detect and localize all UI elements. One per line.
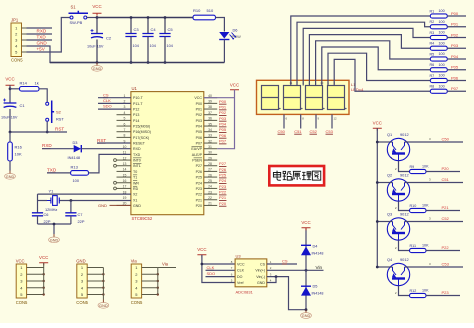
- wire RST to MCU pin9: [97, 142, 131, 144]
- svg-text:R7: R7: [430, 74, 435, 78]
- wire Q4 collector to C53: [405, 266, 464, 268]
- junction C5 bottom: [164, 61, 167, 64]
- wire TXD pin3: [27, 39, 53, 41]
- svg-text:D5: D5: [313, 284, 318, 289]
- svg-text:VCC: VCC: [230, 82, 239, 87]
- svg-text:100: 100: [439, 20, 445, 24]
- svg-text:WR: WR: [133, 181, 139, 185]
- wire Q3 collector to C52: [405, 221, 464, 223]
- wires Via connector: [142, 268, 176, 296]
- svg-text:6: 6: [124, 122, 126, 126]
- svg-text:R5: R5: [430, 52, 435, 56]
- wire R11 to net P22: [426, 250, 460, 252]
- wire ground rail: [50, 62, 224, 64]
- svg-text:P22: P22: [442, 245, 450, 250]
- svg-text:C50: C50: [278, 129, 286, 134]
- net labels P27-P20 on MCU: [219, 161, 227, 206]
- wire R6 to net: [447, 69, 466, 71]
- display digit 4: [328, 86, 347, 110]
- wire Q1 emitter: [377, 141, 392, 143]
- transistor Q2 9012: [387, 173, 410, 202]
- svg-text:Q1: Q1: [387, 132, 392, 137]
- IC U1 left pins 1-20: [114, 94, 151, 208]
- wire display segment 5 to R6: [322, 47, 431, 86]
- svg-text:+5V: +5V: [37, 47, 46, 52]
- svg-text:P22: P22: [196, 193, 202, 197]
- svg-text:9012: 9012: [400, 212, 409, 217]
- svg-text:CLK: CLK: [103, 98, 111, 103]
- svg-text:SW-PB: SW-PB: [70, 20, 83, 25]
- svg-text:12: 12: [123, 156, 127, 160]
- wire JP1 pin1: [27, 27, 53, 29]
- svg-text:TXD: TXD: [47, 167, 57, 172]
- svg-text:P17(SCK): P17(SCK): [133, 136, 149, 140]
- svg-text:C52: C52: [442, 216, 450, 221]
- svg-text:12: 12: [334, 117, 338, 121]
- svg-text:25: 25: [208, 179, 212, 183]
- svg-text:R6: R6: [430, 63, 435, 67]
- svg-text:P13: P13: [133, 113, 139, 117]
- svg-text:P21: P21: [196, 198, 202, 202]
- wire display segment 4 to R5: [316, 41, 431, 86]
- svg-text:INT1: INT1: [133, 164, 141, 168]
- wire GND pin4 to ground rail: [27, 46, 98, 63]
- connector JP1 (CON5 serial header): [11, 17, 27, 62]
- svg-text:X1: X1: [133, 198, 137, 202]
- capacitor C4 104: [142, 18, 156, 63]
- wire display common cathode 1: [283, 114, 285, 128]
- svg-text:SDO: SDO: [207, 271, 216, 276]
- svg-text:P20: P20: [219, 201, 227, 206]
- svg-text:P05: P05: [451, 65, 459, 70]
- svg-text:IN4148: IN4148: [312, 292, 324, 296]
- diode D4 IN4148 clamp to VCC: [301, 244, 323, 256]
- junction Q1 emitter rail: [376, 141, 379, 144]
- svg-text:P02: P02: [451, 32, 459, 37]
- svg-text:CON5: CON5: [131, 300, 143, 305]
- junction Vin diode column: [305, 269, 308, 272]
- capacitor C7 22P: [65, 212, 85, 224]
- svg-text:C51: C51: [294, 129, 302, 134]
- svg-text:RST: RST: [56, 117, 64, 122]
- svg-text:VCC: VCC: [16, 259, 25, 264]
- svg-text:VCC: VCC: [197, 247, 206, 252]
- svg-text:Q2: Q2: [387, 173, 392, 178]
- wire CS adc right: [267, 263, 297, 265]
- svg-text:16: 16: [123, 179, 127, 183]
- wire Q4 base to R12: [399, 286, 410, 296]
- svg-text:R16: R16: [15, 145, 23, 150]
- transistor Q1 9012: [387, 132, 410, 161]
- wire R3 to net: [447, 37, 466, 39]
- junction ground rail at C2: [96, 61, 99, 64]
- junction C4 top: [147, 16, 150, 19]
- display top pin numbers: [289, 81, 335, 85]
- resistor R4 100: [430, 41, 448, 50]
- wire R10 to net P21: [426, 210, 460, 212]
- svg-text:22: 22: [208, 196, 212, 200]
- svg-text:24: 24: [208, 185, 212, 189]
- svg-text:P27: P27: [196, 164, 202, 168]
- resistor R11 10K: [410, 244, 430, 253]
- wire R4 to net: [447, 47, 466, 49]
- svg-text:P01: P01: [451, 22, 459, 27]
- svg-text:9012: 9012: [400, 173, 409, 178]
- svg-text:R4: R4: [430, 42, 435, 46]
- wire RXD to diode D3: [42, 148, 74, 150]
- svg-text:GND: GND: [37, 41, 48, 46]
- junction Vin- gnd branch: [275, 275, 278, 278]
- svg-text:P05: P05: [219, 127, 227, 132]
- svg-text:P11-T: P11-T: [133, 102, 143, 106]
- svg-text:11: 11: [123, 151, 127, 155]
- LED D6 POW: [219, 28, 241, 40]
- svg-text:P00: P00: [451, 11, 459, 16]
- wire VCC adc to pins: [202, 255, 235, 283]
- svg-text:P00: P00: [219, 99, 227, 104]
- svg-text:14: 14: [123, 168, 127, 172]
- svg-text:GND: GND: [93, 67, 102, 71]
- wire R5 to net: [447, 58, 466, 60]
- IC U1 right pins 21-40: [191, 94, 217, 208]
- svg-text:C1: C1: [20, 103, 26, 108]
- svg-text:RST: RST: [97, 138, 106, 143]
- resistor R3 100: [430, 31, 448, 40]
- ground symbol reset: [9, 171, 11, 174]
- svg-text:10: 10: [123, 145, 127, 149]
- svg-text:34: 34: [208, 128, 212, 132]
- svg-text:R14: R14: [20, 80, 28, 85]
- svg-text:JP1: JP1: [11, 17, 19, 22]
- svg-text:RD: RD: [133, 187, 139, 191]
- wire RST row: [10, 131, 67, 133]
- svg-text:T0: T0: [133, 170, 137, 174]
- svg-text:VCC: VCC: [194, 96, 202, 100]
- svg-text:Vin(-): Vin(-): [256, 275, 265, 279]
- svg-text:CS: CS: [260, 262, 266, 266]
- svg-text:C51: C51: [442, 177, 450, 182]
- svg-text:104: 104: [150, 44, 156, 48]
- svg-text:P05: P05: [196, 130, 202, 134]
- svg-text:P03: P03: [451, 43, 459, 48]
- svg-text:GND: GND: [50, 238, 59, 242]
- svg-text:VCC: VCC: [92, 4, 101, 9]
- wire X2 net crystal top: [38, 193, 131, 195]
- wire SDO to pin3: [98, 108, 131, 110]
- svg-text:30: 30: [208, 151, 212, 155]
- wire R9 to net P20: [426, 171, 460, 173]
- wire TXD to R13: [47, 172, 71, 174]
- resistor R14 1k: [10, 80, 39, 91]
- wire top power rail: [97, 17, 193, 19]
- resistor R13 100: [71, 165, 89, 183]
- svg-text:P22: P22: [219, 189, 227, 194]
- resistor R1 100: [430, 9, 448, 18]
- connector JP2 VCC header: [16, 259, 28, 305]
- capacitor C6 22P: [32, 212, 51, 224]
- svg-text:100: 100: [439, 84, 445, 88]
- svg-text:21: 21: [208, 202, 212, 206]
- svg-text:Vin(+): Vin(+): [255, 269, 265, 273]
- svg-text:P07: P07: [196, 142, 202, 146]
- wire X1 net crystal bottom: [59, 200, 131, 202]
- svg-text:GND: GND: [99, 304, 108, 308]
- wire Q3 emitter: [377, 221, 392, 223]
- svg-text:CON5: CON5: [11, 58, 23, 63]
- svg-text:P15(M0SI): P15(M0SI): [133, 125, 150, 129]
- svg-text:VCC: VCC: [39, 255, 48, 260]
- wire display common cathode 4: [331, 114, 333, 128]
- wire diode column: [305, 229, 307, 310]
- svg-text:R1: R1: [430, 9, 435, 13]
- wire D3 to MCU pin10: [81, 148, 131, 150]
- svg-text:GND: GND: [98, 203, 107, 208]
- resistor R9 10K: [410, 165, 430, 174]
- svg-text:Q4: Q4: [387, 257, 393, 262]
- svg-text:R10: R10: [193, 8, 201, 13]
- junction VCC adc: [201, 263, 204, 266]
- svg-text:Vin: Vin: [316, 265, 323, 270]
- resistor R5 100: [430, 52, 448, 61]
- svg-text:P04: P04: [196, 125, 202, 129]
- wire R13 to MCU pin11: [89, 154, 131, 173]
- svg-text:P06: P06: [196, 136, 202, 140]
- svg-text:P25: P25: [219, 172, 227, 177]
- svg-text:10K: 10K: [15, 152, 22, 157]
- capacitor C1 electrolytic 10uF16V: [1, 99, 25, 133]
- svg-text:100: 100: [439, 41, 445, 45]
- svg-text:POW: POW: [232, 34, 242, 39]
- svg-text:C6: C6: [44, 212, 49, 217]
- svg-text:D4: D4: [313, 244, 319, 249]
- svg-text:GND: GND: [133, 204, 141, 208]
- svg-text:P21: P21: [219, 195, 227, 200]
- resistor R6 100: [430, 63, 448, 72]
- svg-text:P14: P14: [133, 119, 139, 123]
- svg-text:P03: P03: [196, 119, 202, 123]
- wire Q1 base to R9: [399, 161, 410, 172]
- svg-text:P20: P20: [196, 204, 202, 208]
- wire R1 to net: [447, 15, 466, 17]
- svg-text:36: 36: [208, 117, 212, 121]
- resistor R10 510: [193, 8, 216, 20]
- svg-text:STC89C52: STC89C52: [132, 216, 153, 221]
- svg-text:GND: GND: [6, 175, 15, 179]
- svg-text:P02: P02: [219, 110, 227, 115]
- wire Vin+ adc right: [267, 269, 324, 271]
- resistor R7 100: [430, 74, 448, 83]
- wire display common cathode 2: [300, 114, 302, 128]
- svg-text:Y1: Y1: [49, 189, 54, 194]
- svg-text:38: 38: [208, 105, 212, 109]
- wire Q4 emitter: [377, 266, 392, 268]
- svg-text:9012: 9012: [400, 257, 409, 262]
- wire R8 to net: [447, 90, 466, 92]
- svg-text:GND: GND: [257, 281, 265, 285]
- display digit 2: [284, 86, 303, 110]
- svg-text:R8: R8: [430, 85, 435, 89]
- switch S2 RST push-button: [46, 101, 65, 124]
- svg-text:C2: C2: [106, 36, 112, 41]
- wire Q2 base to R10: [399, 201, 410, 210]
- capacitor C5 104: [159, 18, 173, 63]
- junction diode column bottom: [305, 308, 308, 311]
- wires VCC connector: [27, 263, 45, 296]
- svg-text:C50: C50: [442, 137, 450, 142]
- svg-text:P06: P06: [451, 75, 459, 80]
- svg-text:P16(MISO): P16(MISO): [133, 130, 151, 134]
- svg-text:S1: S1: [71, 5, 77, 10]
- switch S1 SW-PB: [69, 5, 89, 25]
- svg-text:GND: GND: [76, 259, 85, 264]
- svg-text:104: 104: [167, 44, 173, 48]
- svg-text:T1: T1: [133, 176, 137, 180]
- svg-text:CS: CS: [103, 92, 109, 97]
- svg-text:GND: GND: [302, 314, 311, 318]
- junction Q2 emitter rail: [376, 181, 379, 184]
- svg-text:R11: R11: [410, 244, 417, 248]
- resistor R12 10K: [410, 289, 430, 298]
- svg-text:RST: RST: [55, 127, 64, 132]
- wire CS to pin1: [98, 97, 131, 99]
- svg-text:100: 100: [439, 63, 445, 67]
- svg-text:VCC: VCC: [373, 121, 382, 126]
- resistor R8 100: [430, 84, 448, 93]
- net labels P00-P07 on MCU: [219, 99, 227, 144]
- wire display segment 1 to R2: [297, 22, 430, 85]
- svg-text:R3: R3: [430, 31, 435, 35]
- wire display segment 6 to R7: [328, 53, 430, 85]
- svg-text:RESET: RESET: [133, 142, 146, 146]
- junction C3 bottom: [130, 61, 133, 64]
- svg-text:C52: C52: [310, 129, 318, 134]
- wire display segment 2 to R3: [303, 28, 430, 85]
- wire R10 to LED D6: [216, 18, 225, 32]
- svg-text:CS: CS: [282, 259, 288, 264]
- diode D3 IN4148: [68, 140, 82, 160]
- svg-text:ADC0831: ADC0831: [236, 290, 254, 295]
- svg-text:C53: C53: [442, 262, 450, 267]
- svg-text:22P: 22P: [78, 219, 85, 224]
- crystal Y1 12MHz: [45, 189, 59, 213]
- svg-text:39: 39: [208, 100, 212, 104]
- svg-text:17: 17: [123, 185, 127, 189]
- svg-text:R12: R12: [410, 289, 417, 293]
- svg-text:P24: P24: [219, 178, 227, 183]
- svg-text:15: 15: [123, 173, 127, 177]
- wire LED cathode to ground rail: [223, 40, 225, 63]
- svg-text:9: 9: [124, 139, 126, 143]
- wire display common cathode 3: [315, 114, 317, 128]
- connector JP4 Via header: [131, 259, 143, 305]
- wires GND connector: [87, 268, 104, 300]
- wire VCC rail transistors: [376, 128, 378, 267]
- svg-text:Vref: Vref: [237, 281, 243, 285]
- svg-text:C7: C7: [78, 212, 83, 217]
- svg-text:P12: P12: [133, 108, 139, 112]
- wire crystal left to X2 rail: [38, 200, 48, 202]
- svg-text:100: 100: [73, 178, 80, 183]
- svg-text:P23: P23: [196, 187, 202, 191]
- svg-text:10K: 10K: [422, 204, 429, 208]
- svg-text:CLK: CLK: [237, 269, 245, 273]
- svg-text:D6: D6: [233, 28, 238, 33]
- svg-text:104: 104: [133, 44, 139, 48]
- svg-text:P27: P27: [219, 161, 227, 166]
- svg-text:26: 26: [208, 173, 212, 177]
- svg-text:10K: 10K: [422, 289, 429, 293]
- svg-text:TXD: TXD: [133, 153, 141, 157]
- svg-text:TXD: TXD: [37, 35, 47, 40]
- svg-text:P20: P20: [442, 166, 450, 171]
- svg-text:IN4148: IN4148: [68, 155, 81, 160]
- wire VCC to R14 and C1: [9, 88, 11, 103]
- svg-text:R9: R9: [410, 165, 415, 169]
- junction S2 RST row: [46, 131, 49, 134]
- diode D5 IN4148 clamp to GND: [301, 284, 323, 296]
- wire VCC stem: [96, 16, 98, 17]
- svg-text:33: 33: [208, 134, 212, 138]
- svg-text:R13: R13: [71, 165, 79, 170]
- svg-text:P26: P26: [219, 167, 227, 172]
- svg-text:C4: C4: [151, 27, 157, 32]
- wire Q2 collector to C51: [405, 182, 464, 184]
- svg-text:PSEN: PSEN: [192, 159, 202, 163]
- junction C5 top: [164, 16, 167, 19]
- svg-text:P04: P04: [219, 121, 227, 126]
- svg-text:5: 5: [124, 117, 126, 121]
- svg-text:P06: P06: [219, 133, 227, 138]
- junction R14 row: [9, 87, 12, 90]
- svg-text:VCC: VCC: [5, 77, 14, 82]
- svg-text:P03: P03: [219, 116, 227, 121]
- junction Q4 emitter rail: [376, 266, 379, 269]
- wire display segment 0 to R1: [291, 16, 431, 86]
- junction crystal gnd: [53, 223, 56, 226]
- svg-text:23: 23: [208, 190, 212, 194]
- svg-text:10K: 10K: [422, 165, 429, 169]
- svg-text:EA/VP: EA/VP: [191, 147, 202, 151]
- svg-text:X2: X2: [133, 193, 137, 197]
- IC U3 ADC0831 body: [231, 254, 272, 295]
- display L1 LEDx4 body: [257, 80, 365, 114]
- svg-text:VCC: VCC: [237, 262, 245, 266]
- ground symbol top block: [96, 63, 98, 66]
- resistor R2 100: [430, 20, 448, 29]
- wire display segment 7 to R8: [334, 59, 430, 91]
- wire R12 to net P23: [426, 295, 460, 297]
- wire Q1 collector to C50: [405, 141, 464, 143]
- junction C3 top: [130, 16, 133, 19]
- ground symbol adc: [305, 310, 307, 313]
- svg-text:Via: Via: [162, 262, 169, 267]
- svg-text:P26: P26: [196, 170, 202, 174]
- svg-text:510: 510: [207, 8, 214, 13]
- svg-text:P02: P02: [196, 113, 202, 117]
- svg-text:P23: P23: [442, 290, 450, 295]
- svg-text:100: 100: [439, 9, 445, 13]
- svg-text:29: 29: [208, 156, 212, 160]
- svg-text:CON5: CON5: [76, 300, 88, 305]
- display digit 3: [306, 86, 325, 110]
- svg-text:13: 13: [123, 162, 127, 166]
- svg-text:P04: P04: [451, 54, 459, 59]
- wire S2 to RST row: [46, 122, 48, 132]
- svg-text:VCC: VCC: [301, 220, 310, 225]
- svg-text:9012: 9012: [400, 132, 409, 137]
- svg-text:P00: P00: [196, 102, 202, 106]
- svg-text:S2: S2: [56, 110, 62, 115]
